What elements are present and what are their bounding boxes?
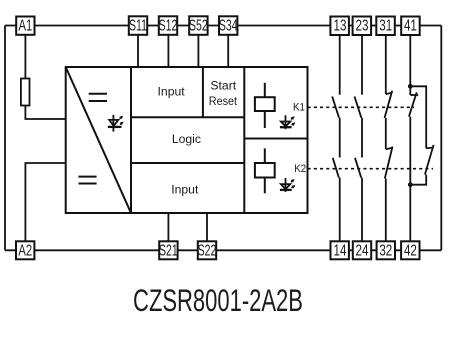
svg-text:32: 32 <box>379 242 392 259</box>
svg-text:K1: K1 <box>293 102 305 114</box>
svg-text:Logic: Logic <box>172 132 201 146</box>
svg-text:S34: S34 <box>219 17 238 35</box>
svg-text:Input: Input <box>171 182 199 196</box>
svg-text:S22: S22 <box>198 241 217 259</box>
svg-text:31: 31 <box>379 17 392 34</box>
svg-text:Input: Input <box>158 85 186 99</box>
svg-text:41: 41 <box>404 17 417 34</box>
svg-text:13: 13 <box>334 17 347 34</box>
svg-text:Start: Start <box>210 79 236 93</box>
svg-text:23: 23 <box>356 17 369 34</box>
svg-text:A1: A1 <box>19 17 33 34</box>
svg-text:S11: S11 <box>129 17 147 35</box>
svg-text:S12: S12 <box>159 17 178 35</box>
svg-text:CZSR8001-2A2B: CZSR8001-2A2B <box>133 283 303 318</box>
svg-text:S21: S21 <box>159 241 178 259</box>
svg-text:K2: K2 <box>294 164 306 176</box>
svg-text:42: 42 <box>404 242 417 259</box>
svg-text:Reset: Reset <box>209 95 238 108</box>
svg-text:24: 24 <box>356 242 369 259</box>
svg-text:A2: A2 <box>18 242 32 259</box>
svg-text:14: 14 <box>334 242 347 259</box>
svg-text:S52: S52 <box>189 17 208 35</box>
